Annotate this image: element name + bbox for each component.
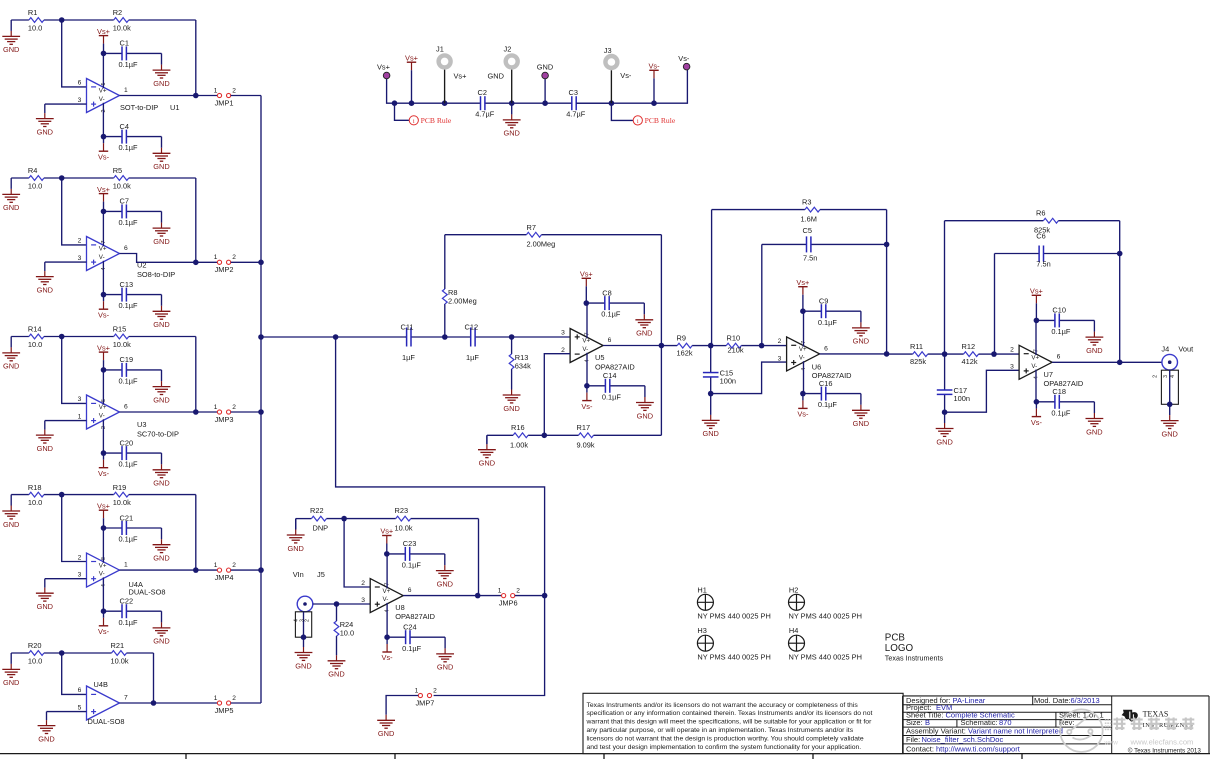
wire to JMP7 (434, 596, 545, 696)
svg-text:10.0k: 10.0k (111, 656, 129, 665)
junction (1034, 318, 1040, 324)
junction (101, 134, 107, 140)
power Vs- (1031, 402, 1043, 427)
op-amp U3 (78, 370, 179, 453)
svg-text:R3: R3 (802, 198, 811, 207)
resistor R16 (487, 423, 544, 450)
svg-text:R6: R6 (1036, 209, 1045, 218)
wire U8 pin3 (313, 603, 370, 605)
wire (45, 578, 87, 580)
wire (196, 261, 218, 263)
svg-text:1: 1 (214, 254, 218, 261)
junction (101, 51, 107, 57)
junction (1117, 251, 1123, 257)
svg-text:GND: GND (637, 411, 653, 420)
wire mid rail (512, 102, 572, 104)
svg-text:2: 2 (361, 580, 365, 587)
power Vs+ (796, 278, 809, 311)
wire (62, 337, 87, 404)
power Vs+ (97, 185, 110, 212)
svg-text:Mod. Date:: Mod. Date: (1034, 696, 1071, 705)
ground (377, 715, 395, 738)
ground (287, 519, 305, 553)
svg-text:GND: GND (503, 404, 519, 413)
wire (62, 20, 87, 87)
svg-text:C22: C22 (120, 597, 134, 606)
svg-text:Vs-: Vs- (581, 402, 593, 411)
wire R7 to out (660, 235, 662, 346)
svg-text:3: 3 (78, 97, 82, 104)
svg-text:VIn: VIn (293, 570, 304, 579)
watermark (1060, 709, 1194, 752)
capacitor C4 (104, 122, 162, 152)
svg-text:R10: R10 (727, 334, 741, 343)
svg-text:Vs+: Vs+ (580, 270, 593, 279)
wire (45, 261, 87, 263)
svg-text:C4: C4 (120, 122, 129, 131)
svg-text:V-: V- (99, 413, 105, 420)
jumper JMP1 (214, 87, 237, 107)
ground (635, 303, 653, 338)
svg-text:V-: V- (1031, 363, 1037, 370)
PCB logo placeholder (885, 633, 944, 663)
svg-text:J3: J3 (604, 46, 612, 55)
ground (153, 370, 171, 405)
capacitor C3 (566, 88, 611, 119)
resistor R19 (62, 483, 196, 507)
component name U4B (94, 680, 108, 689)
svg-text:0.1µF: 0.1µF (602, 392, 622, 401)
wire R17 to out (660, 346, 662, 436)
svg-text:C10: C10 (1052, 306, 1066, 315)
wire C5 left (761, 244, 763, 345)
svg-text:NY PMS 440 0025 PH: NY PMS 440 0025 PH (789, 612, 862, 621)
resistor R23 (344, 506, 478, 532)
svg-text:0.1µF: 0.1µF (402, 561, 422, 570)
capacitor C7 (104, 197, 162, 227)
wire summing bus (260, 96, 262, 704)
svg-text:10.0: 10.0 (28, 181, 42, 190)
resistor R18 (11, 483, 62, 507)
wire (231, 411, 261, 413)
junction (101, 292, 107, 298)
ground (38, 712, 56, 744)
wire (196, 569, 218, 571)
ground (852, 394, 870, 429)
svg-text:C16: C16 (819, 379, 833, 388)
wire (515, 595, 545, 597)
junction (584, 383, 590, 389)
junction (258, 567, 264, 573)
junction (258, 409, 264, 415)
svg-text:i: i (637, 118, 639, 125)
svg-text:R9: R9 (677, 334, 686, 343)
svg-text:R16: R16 (511, 423, 525, 432)
svg-text:NY PMS 440 0025 PH: NY PMS 440 0025 PH (697, 612, 770, 621)
wire (231, 95, 261, 97)
svg-text:1: 1 (214, 562, 218, 569)
resistor R15 (62, 325, 196, 349)
svg-text:J5: J5 (317, 570, 325, 579)
svg-text:C8: C8 (602, 288, 611, 297)
svg-text:C23: C23 (403, 539, 417, 548)
svg-text:Vs-: Vs- (620, 71, 632, 80)
svg-text:V+: V+ (99, 404, 107, 411)
svg-text:100n: 100n (954, 394, 970, 403)
ground (2, 178, 20, 212)
junction (542, 433, 548, 439)
svg-text:DUAL-SO8: DUAL-SO8 (129, 588, 166, 597)
svg-text:GND: GND (153, 637, 169, 646)
wire R6 left (944, 221, 946, 354)
ground (852, 311, 870, 346)
svg-text:V+: V+ (383, 588, 391, 595)
svg-text:0.1µF: 0.1µF (119, 460, 139, 469)
capacitor C19 (104, 355, 162, 385)
svg-text:1: 1 (214, 87, 218, 94)
resistor R4 (11, 166, 62, 190)
resistor R1 (11, 8, 62, 32)
resistor R24 (334, 604, 354, 646)
svg-text:Vs-: Vs- (1031, 418, 1043, 427)
svg-text:C7: C7 (120, 197, 129, 206)
svg-text:R20: R20 (28, 641, 42, 650)
capacitor C20 (104, 438, 162, 468)
svg-text:7: 7 (124, 694, 128, 701)
svg-text:GND: GND (3, 678, 19, 687)
svg-text:3: 3 (1010, 364, 1014, 371)
disclaimer box (583, 693, 903, 753)
wire U6 pin3 (711, 362, 787, 394)
ground (36, 104, 54, 136)
capacitor C16 (803, 379, 861, 409)
wire U8 out (403, 595, 501, 597)
svg-text:GND: GND (378, 729, 394, 738)
svg-text:GND: GND (328, 670, 344, 679)
svg-text:Vs-: Vs- (98, 469, 110, 478)
svg-text:GND: GND (853, 337, 869, 346)
svg-text:10.0k: 10.0k (113, 23, 131, 32)
wire to U5 pin3 (512, 336, 570, 338)
junction (101, 525, 107, 531)
svg-text:3: 3 (78, 396, 82, 403)
capacitor C17 (937, 354, 970, 412)
resistor R17 (544, 423, 661, 450)
svg-text:C21: C21 (120, 513, 134, 522)
svg-text:4: 4 (1170, 375, 1176, 378)
wire (195, 495, 197, 570)
ground (702, 394, 720, 439)
svg-text:2: 2 (78, 238, 82, 245)
svg-text:C19: C19 (120, 355, 134, 364)
svg-text:V-: V- (99, 571, 105, 578)
power Vs+ (97, 27, 110, 54)
svg-text:V-: V- (99, 254, 105, 261)
svg-text:10.0k: 10.0k (113, 498, 131, 507)
junction (651, 100, 657, 106)
svg-text:0.1µF: 0.1µF (119, 218, 139, 227)
svg-text:TEXAS: TEXAS (1143, 710, 1169, 719)
svg-text:Vs+: Vs+ (97, 501, 110, 510)
svg-text:Vs+: Vs+ (454, 72, 467, 81)
wire J1 stem (444, 70, 446, 104)
svg-text:C6: C6 (1036, 232, 1045, 241)
svg-text:JMP4: JMP4 (215, 573, 234, 582)
svg-text:Vs+: Vs+ (380, 527, 393, 536)
svg-text:634k: 634k (515, 362, 531, 371)
svg-text:www.elecfans.com: www.elecfans.com (1130, 737, 1194, 746)
svg-text:C18: C18 (1052, 387, 1066, 396)
svg-text:0.1µF: 0.1µF (818, 400, 838, 409)
junction (392, 100, 398, 106)
svg-text:6/3/2013: 6/3/2013 (1071, 696, 1100, 705)
svg-text:1: 1 (124, 87, 128, 94)
ground (1086, 402, 1104, 437)
junction (101, 450, 107, 456)
wire (47, 711, 87, 713)
wire U7 pin2 (994, 353, 1019, 355)
power Vs- (98, 453, 110, 478)
svg-text:2: 2 (1153, 375, 1159, 378)
wire (486, 435, 488, 444)
directive PCB Rule (633, 116, 676, 125)
wire J2 stem (511, 70, 513, 104)
ground (2, 495, 20, 529)
svg-text:0.1µF: 0.1µF (818, 318, 838, 327)
capacitor C2 (475, 88, 512, 119)
wire JMP6 feedback (336, 337, 545, 596)
junction (942, 409, 948, 415)
mounting hole H1 (697, 585, 770, 620)
ground (2, 20, 20, 54)
svg-text:210k: 210k (728, 346, 744, 355)
wire (45, 420, 87, 422)
capacitor C5 (762, 226, 887, 263)
op-amp U1 (78, 53, 159, 136)
wire (386, 696, 418, 715)
capacitor C24 (387, 623, 445, 653)
svg-text:3: 3 (561, 330, 565, 337)
svg-text:2: 2 (232, 404, 236, 411)
jumper JMP2 (214, 254, 237, 274)
wire (611, 103, 633, 120)
svg-text:R17: R17 (577, 423, 591, 432)
wire main in (261, 336, 404, 338)
svg-text:Vs+: Vs+ (796, 278, 809, 287)
ground (153, 137, 171, 172)
svg-text:C5: C5 (803, 226, 812, 235)
svg-text:Vs+: Vs+ (405, 53, 418, 62)
svg-text:0.1µF: 0.1µF (119, 143, 139, 152)
svg-text:H3: H3 (697, 626, 706, 635)
capacitor C23 (387, 539, 445, 569)
svg-text:10.0: 10.0 (28, 340, 42, 349)
svg-text:File:: File: (906, 735, 920, 744)
svg-text:6: 6 (78, 687, 82, 694)
capacitor C21 (104, 513, 162, 543)
svg-text:PCB: PCB (885, 633, 906, 644)
svg-text:Vs-: Vs- (648, 62, 660, 71)
svg-text:SC70-to-DIP: SC70-to-DIP (137, 430, 179, 439)
ground (503, 374, 521, 413)
junction U5 out (659, 343, 665, 349)
svg-text:JMP5: JMP5 (215, 706, 234, 715)
svg-text:0.1µF: 0.1µF (1051, 408, 1071, 417)
svg-text:J1: J1 (436, 45, 444, 54)
svg-text:R4: R4 (28, 166, 37, 175)
svg-text:3: 3 (78, 255, 82, 262)
ground (36, 262, 54, 294)
svg-text:GND: GND (1086, 427, 1102, 436)
wire U7 out (1052, 361, 1162, 363)
svg-text:i: i (413, 118, 415, 125)
ground (478, 435, 496, 467)
svg-text:DUAL-SO8: DUAL-SO8 (88, 717, 125, 726)
junction (59, 175, 65, 181)
svg-text:U8: U8 (395, 603, 404, 612)
svg-text:C2: C2 (478, 88, 487, 97)
junction (800, 308, 806, 314)
capacitor C6 (995, 232, 1120, 269)
wire U6 out (820, 353, 887, 355)
wire output (120, 569, 196, 571)
connector J5 (293, 570, 325, 640)
svg-text:Vs+: Vs+ (377, 63, 390, 72)
test point Vs+ (377, 63, 390, 79)
svg-text:0.1µF: 0.1µF (119, 377, 139, 386)
ground (2, 653, 20, 687)
svg-text:U1: U1 (170, 103, 179, 112)
ground (153, 611, 171, 646)
ground (153, 528, 171, 563)
svg-text:R7: R7 (527, 223, 536, 232)
junction (800, 391, 806, 397)
capacitor C14 (587, 371, 645, 401)
wire output (120, 254, 196, 263)
svg-text:1: 1 (498, 587, 502, 594)
svg-text:V+: V+ (582, 338, 590, 345)
svg-text:6: 6 (124, 403, 128, 410)
wire J3 stem (610, 70, 612, 103)
wire output (120, 702, 218, 704)
ground (2, 337, 20, 371)
svg-text:4.7µF: 4.7µF (475, 110, 495, 119)
svg-text:6: 6 (78, 80, 82, 87)
svg-text:warrant that this design will: warrant that this design will meet the s… (586, 719, 873, 726)
junction (542, 100, 548, 106)
power Vs- (648, 62, 660, 104)
capacitor C1 (104, 39, 162, 69)
wire R3 left (711, 210, 713, 346)
junction (193, 260, 199, 266)
svg-text:JMP7: JMP7 (415, 698, 434, 707)
junction (101, 209, 107, 215)
svg-text:GND: GND (37, 127, 53, 136)
svg-text:C1: C1 (120, 39, 129, 48)
svg-text:C3: C3 (569, 88, 578, 97)
wire (195, 337, 197, 413)
svg-text:specification or any informati: specification or any information contain… (587, 710, 873, 717)
svg-text:162k: 162k (677, 349, 693, 358)
power Vs- (98, 137, 110, 162)
TI logo (1122, 710, 1202, 755)
svg-text:V-: V- (99, 96, 105, 103)
svg-text:PA-Linear: PA-Linear (953, 696, 986, 705)
svg-text:0.1µF: 0.1µF (1051, 327, 1071, 336)
ground (436, 554, 454, 589)
resistor R11 (887, 342, 945, 366)
svg-text:NY PMS 440 0025 PH: NY PMS 440 0025 PH (789, 653, 862, 662)
junction (384, 634, 390, 640)
resistor R12 (945, 342, 994, 366)
wire (231, 261, 261, 263)
svg-text:Vs+: Vs+ (97, 27, 110, 36)
wire R23 to out (478, 519, 480, 596)
svg-text:JMP1: JMP1 (215, 98, 234, 107)
junction (193, 409, 199, 415)
svg-text:and test your design implement: and test your design implementation to c… (587, 744, 862, 751)
connector J4 (1153, 345, 1193, 408)
svg-text:C11: C11 (401, 322, 414, 331)
svg-text:Vs-: Vs- (98, 627, 110, 636)
capacitor C13 (104, 280, 162, 310)
svg-text:3: 3 (361, 597, 365, 604)
junction (409, 100, 415, 106)
ground (153, 211, 171, 246)
svg-text:GND: GND (3, 45, 19, 54)
capacitor C10 (1036, 306, 1094, 336)
junction (991, 351, 997, 357)
test point Vs- (678, 54, 690, 70)
junction (193, 567, 199, 573)
wire C6 left (994, 254, 996, 355)
svg-text:0.1µF: 0.1µF (119, 301, 139, 310)
junction (708, 343, 714, 349)
svg-text:H4: H4 (789, 626, 798, 635)
op-amp U6 (778, 311, 852, 393)
svg-text:U3: U3 (137, 420, 146, 429)
svg-text:R15: R15 (113, 325, 127, 334)
svg-text:any particular purpose, or wil: any particular purpose, or will operate … (587, 727, 854, 734)
junction (258, 334, 264, 340)
svg-text:6: 6 (824, 345, 828, 352)
svg-text:SO8-to-DIP: SO8-to-DIP (137, 270, 175, 279)
junction (708, 391, 714, 397)
jumper JMP3 (214, 404, 237, 424)
svg-text:0.1µF: 0.1µF (119, 618, 139, 627)
svg-text:1.6M: 1.6M (801, 215, 817, 224)
jumper JMP6 (498, 587, 521, 607)
svg-text:3: 3 (778, 355, 782, 362)
junction (884, 242, 890, 248)
svg-text:GND: GND (503, 129, 519, 138)
junction (442, 100, 448, 106)
svg-text:2: 2 (1010, 347, 1014, 354)
power Vs- (797, 394, 809, 419)
svg-text:2: 2 (433, 687, 437, 694)
power Vs- (98, 295, 110, 320)
ground (636, 386, 654, 421)
wire output (120, 411, 196, 413)
svg-text:H1: H1 (697, 585, 706, 594)
svg-text:Vs-: Vs- (797, 410, 809, 419)
svg-text:4.7µF: 4.7µF (566, 110, 586, 119)
svg-text:10.0k: 10.0k (113, 181, 131, 190)
svg-text:2: 2 (305, 619, 311, 622)
test point GND (537, 63, 553, 79)
svg-text:2: 2 (561, 347, 565, 354)
svg-text:C9: C9 (819, 297, 828, 306)
